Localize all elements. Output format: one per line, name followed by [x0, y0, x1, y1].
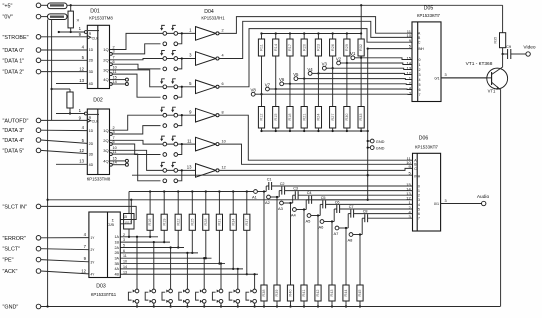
svg-text:R19: R19 [162, 219, 166, 226]
svg-text:V3: V3 [322, 62, 328, 67]
node V3 test point [326, 67, 332, 69]
wire t4 to D06 A [219, 115, 412, 160]
wire t6 to D06 C [219, 168, 412, 170]
svg-text:C9: C9 [506, 44, 512, 49]
node A6 terminal [320, 220, 324, 224]
wire bit line 4 [120, 252, 198, 254]
svg-text:10: 10 [222, 139, 226, 143]
wire tap to D05 [361, 58, 412, 60]
wire cap to D06 [285, 190, 413, 192]
svg-text:11: 11 [113, 70, 117, 74]
wire t3 to D05 C [219, 29, 412, 87]
svg-text:D04: D04 [204, 9, 214, 15]
svg-text:4Q: 4Q [103, 159, 108, 164]
node DATA 4 terminal [36, 138, 41, 143]
svg-text:"ACK": "ACK" [3, 269, 18, 275]
svg-text:A1: A1 [252, 195, 258, 200]
jumper S2 [145, 241, 155, 308]
svg-text:R25: R25 [190, 219, 194, 226]
svg-text:15: 15 [113, 75, 117, 79]
svg-text:12: 12 [222, 166, 226, 170]
wire D06 output [441, 203, 482, 205]
jumper X6 [160, 162, 195, 182]
capacitor [507, 49, 509, 59]
resistor R17 [287, 39, 293, 56]
svg-text:1Q: 1Q [103, 47, 108, 52]
node GND terminal [368, 147, 371, 149]
jumper X2 [160, 51, 195, 71]
svg-text:C7: C7 [349, 205, 354, 209]
wire [149, 230, 151, 237]
node AUTOFD terminal [36, 118, 41, 123]
svg-text:R40: R40 [289, 290, 293, 297]
svg-text:V8: V8 [251, 88, 257, 93]
svg-text:R41: R41 [302, 290, 306, 297]
node A5 terminal [307, 214, 311, 218]
svg-text:V4: V4 [307, 67, 313, 72]
wire [205, 192, 207, 215]
svg-text:4D: 4D [89, 163, 94, 167]
wire audio summing bus [129, 191, 253, 193]
svg-text:D06: D06 [419, 136, 429, 142]
node V7 test point [269, 88, 275, 90]
wire A node to resistor [263, 192, 265, 286]
svg-text:R14: R14 [274, 44, 278, 51]
node DATA 1 terminal [36, 58, 41, 63]
inverter D04.5 [187, 137, 226, 151]
node PE terminal [36, 257, 41, 262]
flip-flop D02 [79, 98, 111, 182]
wire [163, 230, 165, 242]
wire [332, 56, 334, 68]
resistor R38 [261, 285, 267, 301]
wire D06 INH [132, 174, 413, 176]
node +5 terminal [36, 3, 41, 8]
svg-text:3: 3 [419, 73, 421, 77]
svg-text:"0V": "0V" [3, 15, 14, 21]
svg-text:0/1: 0/1 [434, 202, 439, 206]
svg-text:C8: C8 [363, 210, 368, 214]
wire [56, 83, 87, 85]
wire [120, 200, 131, 224]
svg-text:V5: V5 [293, 72, 299, 77]
resistor R16 [147, 214, 153, 230]
svg-text:A3: A3 [278, 206, 284, 211]
svg-text:C1: C1 [267, 177, 272, 181]
svg-text:VT1 - КТ368: VT1 - КТ368 [466, 61, 493, 67]
resistor R23 [315, 39, 321, 56]
wire [346, 63, 348, 107]
svg-text:D02: D02 [93, 98, 103, 104]
svg-text:R42: R42 [316, 290, 320, 297]
node GND terminal [368, 140, 371, 142]
svg-text:2: 2 [123, 233, 125, 237]
wire t1 to D05 A [219, 17, 412, 34]
wire bit line 5 [120, 257, 211, 259]
wire [177, 192, 179, 215]
resistor R25 [189, 214, 195, 230]
wire [48, 199, 368, 201]
capacitor C7 [350, 210, 352, 218]
svg-text:6: 6 [418, 212, 420, 216]
resistor R31 [216, 214, 222, 230]
svg-text:V2: V2 [336, 56, 342, 61]
wire [41, 140, 88, 143]
wire +5 sub-rail [51, 20, 53, 121]
wire [163, 192, 165, 215]
wire INH-GND rail [367, 49, 369, 200]
capacitor C8 [364, 214, 366, 222]
svg-text:13: 13 [123, 270, 127, 274]
node ACK terminal [36, 269, 41, 274]
multiplexer D06 [406, 136, 440, 231]
svg-text:R26: R26 [331, 44, 335, 51]
svg-text:1D: 1D [89, 48, 94, 52]
resistor R39 [274, 285, 280, 301]
wire [359, 301, 361, 307]
svg-text:1D: 1D [89, 129, 94, 133]
wire [353, 234, 362, 236]
node V1 test point [355, 57, 361, 59]
svg-text:C4: C4 [307, 191, 312, 195]
wire D01 outputs [110, 33, 161, 49]
wire tap to D05 [304, 78, 412, 81]
jumper X3 [160, 79, 195, 99]
resistor R32 [358, 39, 364, 56]
svg-text:R29: R29 [345, 44, 349, 51]
resistor R27 [330, 107, 336, 129]
node V5 test point [298, 78, 304, 80]
svg-text:V6: V6 [279, 77, 285, 82]
wire [317, 34, 319, 40]
svg-text:4A: 4A [114, 267, 119, 271]
wire GND bus [41, 306, 501, 308]
wire tap to D05 [276, 88, 412, 91]
resistor R13 [128, 192, 130, 214]
svg-text:C6: C6 [335, 200, 340, 204]
resistor R14 [273, 39, 279, 56]
svg-text:"SLCT": "SLCT" [3, 247, 21, 253]
node Video terminal [511, 53, 526, 55]
svg-text:10: 10 [123, 260, 127, 264]
wire [41, 271, 89, 274]
resistor R42 [315, 285, 321, 301]
svg-text:13: 13 [79, 159, 84, 164]
inverter D04.2 [189, 52, 224, 66]
wire D05 INH [368, 48, 412, 50]
svg-text:3: 3 [113, 50, 115, 54]
svg-text:A4: A4 [291, 213, 297, 218]
svg-text:1: 1 [419, 63, 421, 67]
resistor [500, 33, 506, 48]
svg-text:R22: R22 [176, 219, 180, 226]
wire A node to resistor [345, 228, 347, 285]
svg-text:2: 2 [419, 68, 421, 72]
node V6 test point [284, 83, 290, 85]
svg-text:4B: 4B [114, 273, 119, 277]
svg-text:2: 2 [113, 45, 115, 49]
svg-text:12: 12 [81, 268, 86, 273]
svg-text:8: 8 [222, 110, 224, 114]
node V2 test point [341, 62, 347, 64]
node A8 terminal [349, 233, 353, 237]
node SLCT IN terminal [36, 204, 41, 209]
wire cap to D06 [298, 194, 412, 196]
wire [332, 68, 334, 106]
jumper S3 [162, 246, 172, 307]
wire ladder bottom bus [262, 130, 368, 132]
wire [360, 128, 362, 131]
node DATA 5 terminal [36, 148, 41, 153]
wire bit line 3 [120, 247, 184, 249]
svg-text:R12: R12 [260, 114, 264, 121]
svg-text:14: 14 [123, 265, 127, 269]
svg-text:R15: R15 [274, 114, 278, 121]
wire [317, 56, 319, 73]
wire [502, 48, 504, 54]
node V8 test point [255, 93, 261, 95]
svg-text:R38: R38 [262, 290, 266, 297]
svg-text:A2: A2 [265, 200, 271, 205]
svg-text:3B: 3B [114, 262, 119, 266]
node 0V terminal [36, 14, 41, 19]
wire [346, 56, 348, 63]
resistor R26 [330, 39, 336, 56]
svg-text:C3: C3 [293, 187, 298, 191]
wire A node to resistor [359, 235, 361, 286]
svg-text:R23: R23 [317, 44, 321, 51]
jumper S6 [212, 262, 222, 307]
wire bit line 2 [120, 241, 170, 243]
svg-text:R21: R21 [302, 114, 306, 121]
svg-text:INH: INH [418, 47, 424, 51]
svg-text:"GND": "GND" [3, 305, 19, 311]
wire A node to resistor [331, 222, 333, 286]
wire [191, 192, 193, 215]
resistor R12 [258, 107, 264, 129]
svg-text:R45: R45 [358, 290, 362, 297]
wire +5 rail [67, 4, 503, 6]
wire A node to resistor [276, 197, 278, 285]
svg-text:6: 6 [123, 249, 125, 253]
capacitor C2 [281, 187, 283, 195]
wire cap to D06 [340, 208, 413, 210]
jumper X1 [160, 25, 195, 45]
svg-text:КР1533КП7: КР1533КП7 [417, 13, 441, 18]
svg-text:КР1533ЛП11: КР1533ЛП11 [91, 292, 117, 297]
svg-text:R34: R34 [231, 219, 235, 226]
svg-text:"STROBE": "STROBE" [3, 35, 29, 41]
node GND terminal [36, 304, 41, 309]
svg-text:6: 6 [419, 88, 421, 92]
resistor R19 [161, 214, 167, 230]
wire [332, 34, 334, 40]
svg-text:R16: R16 [148, 219, 152, 226]
wire +5 feed to ladder [360, 5, 362, 33]
capacitor C3 [294, 191, 296, 199]
wire [331, 301, 333, 307]
wire [59, 31, 85, 33]
svg-text:3: 3 [123, 238, 125, 242]
inductor L1 [48, 3, 68, 9]
wire [261, 56, 263, 94]
wire [289, 128, 291, 131]
svg-text:R44: R44 [344, 290, 348, 297]
jumper S7 [229, 268, 239, 308]
inverter D04.1 [189, 27, 224, 41]
node DATA 3 terminal [36, 128, 41, 133]
wire [261, 34, 263, 40]
wire [290, 301, 292, 307]
xor D03 [89, 212, 120, 297]
svg-text:"PE": "PE" [3, 258, 14, 264]
svg-text:6: 6 [222, 82, 224, 86]
svg-text:"DATA 5": "DATA 5" [3, 148, 25, 154]
svg-text:4Q: 4Q [103, 77, 108, 82]
node A7 terminal [335, 226, 339, 230]
svg-text:V7: V7 [265, 82, 271, 87]
wire [41, 49, 88, 51]
wire bit line 8 [120, 273, 258, 275]
wire [339, 227, 348, 229]
svg-text:C2: C2 [280, 182, 285, 186]
wire [41, 260, 89, 262]
svg-text:1: 1 [418, 189, 420, 193]
svg-text:V1: V1 [350, 51, 356, 56]
node A1 terminal [254, 190, 258, 194]
jumper S4 [179, 252, 189, 308]
wire t2 to D05 B [219, 21, 412, 58]
wire 0V rail [47, 20, 49, 307]
svg-text:3A: 3A [114, 257, 119, 261]
wire [41, 206, 137, 219]
resistor R33 [358, 107, 364, 129]
svg-text:Video: Video [523, 44, 536, 50]
wire [177, 230, 179, 247]
svg-text:13: 13 [79, 78, 84, 83]
wire tap to D05 [333, 68, 412, 69]
wire [360, 58, 362, 107]
svg-text:"DATA 4": "DATA 4" [3, 138, 25, 144]
svg-text:0: 0 [418, 184, 420, 188]
svg-text:3: 3 [445, 73, 447, 77]
wire [275, 89, 277, 107]
wire [149, 192, 151, 215]
wire A node to resistor [317, 216, 319, 286]
svg-text:15: 15 [123, 215, 127, 219]
svg-text:R18: R18 [288, 114, 292, 121]
wire [41, 36, 88, 38]
wire D02 outputs [110, 115, 161, 130]
svg-text:VT1: VT1 [488, 89, 496, 94]
svg-text:Σ/B: Σ/B [108, 223, 114, 227]
svg-text:R20: R20 [302, 44, 306, 51]
svg-text:R37: R37 [245, 219, 249, 226]
svg-text:7: 7 [113, 56, 115, 60]
svg-text:2D: 2D [89, 142, 94, 146]
svg-text:R13: R13 [125, 221, 131, 225]
multiplexer D05 [406, 5, 441, 101]
svg-text:C5: C5 [321, 196, 326, 200]
wire cap to D06 [312, 199, 413, 201]
inverter D04.6 [187, 164, 226, 178]
resistor R20 [301, 39, 307, 56]
node A4 terminal [293, 208, 297, 212]
resistor R28 [203, 214, 209, 230]
resistor R29 [344, 39, 350, 56]
node ERROR terminal [36, 236, 41, 241]
svg-text:14: 14 [113, 161, 117, 165]
svg-text:2A: 2A [114, 246, 119, 250]
svg-text:R33: R33 [359, 114, 363, 121]
inverter D04.4 [189, 108, 224, 122]
wire [41, 237, 89, 239]
wire [246, 192, 248, 215]
svg-text:R32: R32 [359, 44, 363, 51]
svg-text:A6: A6 [319, 225, 325, 230]
svg-text:"SLCT IN": "SLCT IN" [3, 204, 27, 210]
svg-text:13: 13 [187, 165, 192, 170]
wire [317, 301, 319, 307]
wire cap to D06 [272, 185, 413, 187]
wire A node to resistor [290, 203, 292, 285]
wire [257, 191, 266, 193]
wire [275, 56, 277, 89]
wire [41, 59, 88, 61]
wire [191, 230, 193, 253]
resistor R1 [70, 5, 72, 11]
svg-text:INH: INH [414, 174, 420, 178]
node DATA 0 terminal [36, 48, 41, 53]
resistor R43 [329, 285, 335, 301]
resistor R34 [230, 214, 236, 230]
svg-text:6: 6 [113, 140, 115, 144]
node SLCT terminal [36, 246, 41, 251]
svg-text:11: 11 [113, 150, 117, 154]
svg-text:4: 4 [418, 203, 420, 207]
svg-text:A8: A8 [348, 238, 354, 243]
wire cap to D06 [354, 213, 413, 215]
node A2 terminal [267, 195, 271, 199]
svg-text:11: 11 [123, 254, 127, 258]
wire [41, 119, 88, 121]
wire t5 to D06 B [219, 144, 412, 164]
wire [41, 249, 89, 250]
svg-text:R35: R35 [493, 37, 497, 44]
wire [41, 4, 48, 6]
resistor R45 [357, 285, 363, 301]
wire cap to D06 [368, 217, 413, 219]
wire ladder top bus [262, 33, 362, 35]
svg-text:1B: 1B [114, 240, 119, 244]
svg-text:2: 2 [418, 194, 420, 198]
wire bit line 6 [120, 263, 225, 265]
svg-text:КР1533ЛН1: КР1533ЛН1 [201, 16, 225, 21]
svg-text:"DATA 1": "DATA 1" [3, 58, 25, 64]
wire [303, 79, 305, 107]
wire [360, 34, 362, 40]
flip-flop D01 [79, 9, 114, 89]
resistor R44 [343, 285, 349, 301]
svg-text:3: 3 [113, 130, 115, 134]
svg-text:D03: D03 [96, 283, 106, 289]
resistor R15 [273, 107, 279, 129]
svg-text:GND: GND [376, 139, 385, 144]
node DATA 2 terminal [36, 69, 41, 74]
wire [324, 221, 334, 223]
svg-text:R17: R17 [288, 44, 292, 51]
resistor R41 [301, 285, 307, 301]
